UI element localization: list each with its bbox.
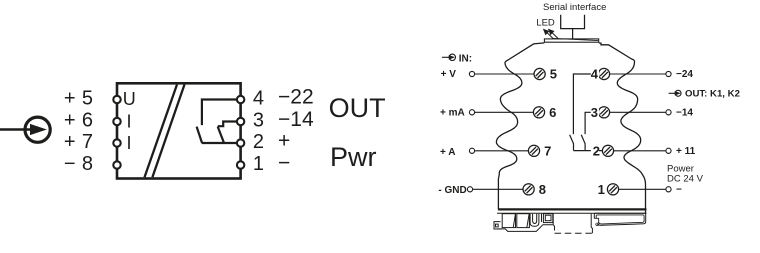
svg-text:- GND: - GND bbox=[438, 185, 466, 196]
isolation barrier diagonal 2 bbox=[152, 85, 184, 178]
terminal pin 5 bbox=[113, 96, 120, 103]
svg-text:3: 3 bbox=[253, 109, 264, 131]
terminal pin 2 bbox=[237, 139, 244, 146]
terminal pin 6 bbox=[113, 118, 120, 125]
module top plateau bbox=[544, 39, 598, 42]
wire from pin 4 bbox=[202, 100, 238, 126]
relay contact blade K2 bbox=[218, 127, 224, 144]
node -GND bbox=[467, 187, 472, 192]
current source circle bbox=[25, 117, 50, 142]
module left housing outline bbox=[496, 43, 544, 210]
latch channel bbox=[541, 214, 543, 222]
current source arrowhead bbox=[30, 124, 47, 135]
DIN rail slab left hook bbox=[594, 218, 599, 225]
svg-text:5: 5 bbox=[550, 67, 557, 82]
block hatch 1 bbox=[513, 214, 515, 227]
svg-text:+: + bbox=[64, 131, 76, 153]
terminal 4 bbox=[598, 68, 609, 79]
svg-text:7: 7 bbox=[82, 131, 93, 153]
svg-text:5: 5 bbox=[82, 88, 93, 110]
common rail wire to pin 2 bbox=[202, 142, 238, 144]
spring outer U bbox=[530, 214, 539, 227]
terminal pin 3 bbox=[237, 118, 244, 125]
svg-text:+: + bbox=[64, 88, 76, 110]
wire from pin 3 bbox=[218, 122, 238, 127]
svg-text:−: − bbox=[278, 152, 290, 175]
serial interface stem bbox=[572, 29, 574, 39]
clip foot hook outer bbox=[494, 222, 502, 229]
wire terminal 2 to +11 bbox=[614, 150, 666, 152]
svg-text:−14: −14 bbox=[278, 108, 314, 131]
terminal pin 4 bbox=[237, 96, 244, 103]
top face 3D edge bbox=[554, 38, 599, 40]
svg-text:6: 6 bbox=[549, 105, 556, 120]
svg-text:3: 3 bbox=[591, 105, 598, 120]
isolation barrier diagonal 1 bbox=[145, 85, 178, 178]
DIN rail slab outer bbox=[594, 213, 645, 225]
latch square inner bbox=[545, 215, 551, 221]
clip foot hook inner bbox=[496, 224, 499, 227]
white knockouts for relay pin numbers bbox=[591, 68, 599, 158]
svg-text:7: 7 bbox=[544, 144, 551, 159]
svg-text:+: + bbox=[278, 130, 290, 153]
terminal pin 8 bbox=[113, 161, 120, 168]
screw terminals bbox=[523, 68, 619, 194]
terminal 3 bbox=[598, 107, 609, 118]
relay blade K2 bbox=[581, 135, 585, 144]
relay wire from terminal 3 bbox=[585, 112, 598, 134]
relay contact blade K1 bbox=[197, 127, 203, 144]
svg-text:U: U bbox=[123, 89, 136, 109]
svg-text:6: 6 bbox=[82, 110, 93, 132]
wire terminal 4 to -24 bbox=[610, 73, 666, 75]
svg-text:−: − bbox=[64, 153, 76, 175]
terminal pin 7 bbox=[113, 139, 120, 146]
node -24 bbox=[666, 71, 671, 76]
clip bottom plate bbox=[497, 225, 553, 232]
svg-text:OUT: K1, K2: OUT: K1, K2 bbox=[685, 88, 740, 99]
OUT icon bbox=[669, 90, 682, 96]
svg-text:8: 8 bbox=[539, 182, 546, 197]
svg-text:+ A: + A bbox=[440, 147, 455, 158]
svg-text:−: − bbox=[676, 184, 682, 195]
serial interface bracket bbox=[561, 15, 585, 29]
svg-text:4: 4 bbox=[253, 87, 264, 109]
terminal 6 bbox=[533, 107, 544, 118]
clip block 1 bbox=[502, 214, 515, 228]
rail slot left side bbox=[553, 214, 554, 231]
svg-text:2: 2 bbox=[253, 131, 264, 153]
svg-text:Serial interface: Serial interface bbox=[543, 2, 606, 13]
relay blade K1 stub bbox=[573, 143, 575, 150]
svg-text:+ mA: + mA bbox=[440, 107, 465, 118]
IN icon bbox=[442, 54, 456, 60]
node -14 bbox=[666, 110, 671, 115]
relay common rail to terminal 2 bbox=[574, 150, 603, 152]
wire +V to terminal 5 bbox=[475, 73, 534, 75]
svg-text:+: + bbox=[64, 110, 76, 132]
field wiring end circles bbox=[467, 71, 671, 191]
svg-text:+ V: + V bbox=[441, 69, 457, 80]
relay blade K2 stub bbox=[584, 143, 586, 150]
node - power bbox=[666, 187, 671, 192]
module right housing outline bbox=[599, 43, 646, 214]
wire +A to terminal 7 bbox=[475, 150, 529, 152]
svg-text:OUT: OUT bbox=[329, 93, 386, 123]
svg-text:LED: LED bbox=[536, 18, 555, 29]
LED arrow 1 bbox=[546, 32, 553, 39]
svg-text:IN:: IN: bbox=[459, 53, 472, 64]
svg-text:I: I bbox=[127, 133, 132, 153]
svg-text:I: I bbox=[127, 111, 132, 131]
terminal 1 bbox=[607, 184, 618, 195]
terminal 8 bbox=[523, 184, 534, 195]
terminal pin 1 bbox=[237, 161, 244, 168]
relay wire from terminal 4 bbox=[573, 74, 598, 134]
svg-text:+ 11: + 11 bbox=[676, 146, 696, 157]
DIN rail mount drawing bbox=[494, 213, 646, 233]
svg-text:1: 1 bbox=[253, 153, 264, 175]
terminal numbers bbox=[539, 67, 605, 197]
svg-text:2: 2 bbox=[593, 144, 600, 159]
spring inner U bbox=[533, 214, 537, 224]
block hatch 2 bbox=[527, 214, 529, 227]
node +mA bbox=[469, 110, 474, 115]
terminal 2 bbox=[602, 145, 613, 156]
svg-text:−22: −22 bbox=[278, 86, 314, 109]
svg-text:8: 8 bbox=[82, 153, 93, 175]
relay blade K1 bbox=[570, 135, 574, 144]
wire terminal 1 to - bbox=[619, 188, 666, 190]
clip block 2 bbox=[517, 214, 530, 228]
svg-text:Pwr: Pwr bbox=[330, 142, 377, 172]
wire +mA to terminal 6 bbox=[475, 111, 534, 113]
module base plate bbox=[498, 208, 647, 210]
current source arrow shaft bbox=[0, 128, 33, 131]
wire terminal 3 to -14 bbox=[610, 111, 666, 113]
rail slot right side bbox=[591, 214, 592, 234]
terminal 7 bbox=[528, 145, 539, 156]
rail slot dashed bottom bbox=[555, 232, 593, 234]
LED arrow 2 bbox=[551, 32, 558, 39]
wire -GND to terminal 8 bbox=[473, 188, 524, 190]
small labels bbox=[438, 53, 740, 196]
converter box U1 bbox=[117, 83, 241, 178]
svg-text:−14: −14 bbox=[676, 107, 693, 118]
svg-text:1: 1 bbox=[598, 182, 605, 197]
DIN rail slab inner bbox=[596, 215, 644, 224]
terminal 5 bbox=[534, 68, 545, 79]
node +V bbox=[469, 71, 474, 76]
node +A bbox=[469, 148, 474, 153]
svg-text:4: 4 bbox=[591, 67, 599, 82]
svg-text:−24: −24 bbox=[676, 69, 693, 80]
base lower edge bbox=[497, 212, 647, 214]
svg-text:DC 24 V: DC 24 V bbox=[667, 173, 704, 184]
node +11 bbox=[666, 148, 671, 153]
latch square outer bbox=[543, 214, 552, 223]
